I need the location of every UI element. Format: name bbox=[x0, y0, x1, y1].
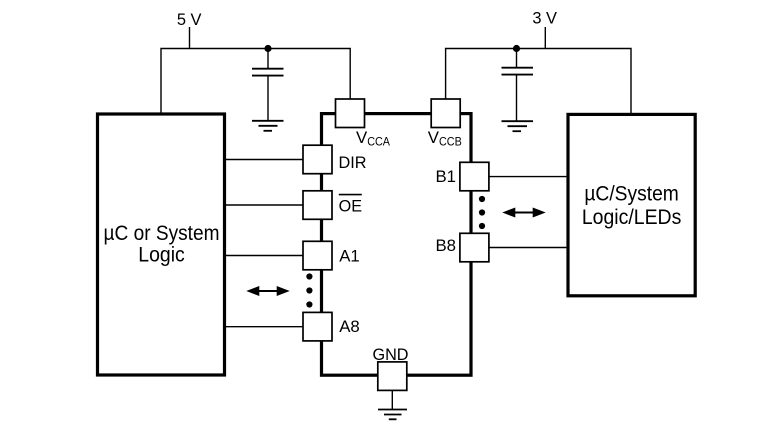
ellipsis dots B side bbox=[479, 196, 485, 229]
svg-text:A8: A8 bbox=[339, 317, 360, 336]
junction 3V rail bbox=[513, 45, 520, 52]
block left: µC or System Logic bbox=[98, 114, 225, 375]
pin GND bbox=[378, 362, 407, 391]
wire OE bbox=[226, 204, 303, 206]
svg-text:Logic: Logic bbox=[138, 243, 185, 266]
IC U1 outline bbox=[322, 114, 472, 376]
svg-text:3 V: 3 V bbox=[532, 8, 557, 27]
wire 5V lead bbox=[189, 27, 191, 49]
svg-text:A1: A1 bbox=[339, 246, 360, 265]
pin A1 bbox=[303, 241, 332, 269]
wire DIR bbox=[226, 159, 303, 161]
block right: µC/System Logic/LEDs bbox=[568, 114, 695, 295]
pin DIR bbox=[303, 145, 332, 174]
pin B1 bbox=[460, 162, 489, 191]
svg-text:B1: B1 bbox=[435, 167, 456, 186]
capacitor C2 bbox=[502, 49, 534, 122]
label OE (active low) bbox=[339, 195, 362, 216]
ground GND pin bbox=[378, 410, 407, 420]
svg-text:Logic/LEDs: Logic/LEDs bbox=[582, 206, 682, 229]
wire B8 bbox=[489, 247, 567, 249]
wire GND tail bbox=[391, 390, 393, 409]
pin VCCB bbox=[431, 99, 460, 128]
svg-text:5 V: 5 V bbox=[177, 10, 202, 29]
pin OE bbox=[303, 191, 332, 220]
wire B1 bbox=[489, 176, 567, 178]
pin B8 bbox=[460, 233, 489, 261]
ground C1 bbox=[252, 121, 284, 131]
wire 3V rail bbox=[446, 49, 631, 115]
wire A8 bbox=[226, 326, 303, 328]
svg-text:µC or System: µC or System bbox=[104, 222, 220, 245]
bidirectional arrow B side bbox=[502, 208, 545, 218]
pin VCCA bbox=[336, 99, 365, 128]
junction 5V rail bbox=[264, 45, 271, 52]
svg-text:DIR: DIR bbox=[339, 153, 367, 172]
svg-text:µC/System: µC/System bbox=[584, 182, 679, 205]
svg-text:OE: OE bbox=[339, 197, 362, 216]
pin A8 bbox=[303, 312, 332, 341]
wire 3V lead bbox=[544, 27, 546, 49]
wire 5V rail bbox=[161, 49, 350, 115]
bidirectional arrow A side bbox=[246, 286, 289, 296]
svg-text:GND: GND bbox=[373, 345, 409, 364]
wire A1 bbox=[226, 255, 303, 257]
capacitor C1 bbox=[252, 49, 284, 121]
ground C2 bbox=[502, 121, 534, 131]
ellipsis dots A side bbox=[306, 273, 312, 307]
svg-text:B8: B8 bbox=[435, 236, 456, 255]
